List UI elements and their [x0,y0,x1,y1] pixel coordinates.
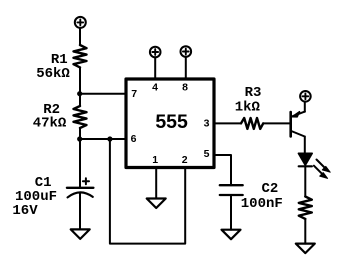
wire node C down, along bottom, up to pin 2 [110,139,185,244]
svg-text:3: 3 [204,117,210,129]
wire R2 to node B [79,128,81,139]
svg-text:1kΩ: 1kΩ [235,99,261,115]
node B (junction R2/C1/pin6) [77,136,82,141]
power supply P4 (above Q1) [300,91,311,102]
svg-text:1: 1 [152,154,158,166]
svg-text:4: 4 [152,82,158,94]
svg-text:C2: C2 [261,181,278,197]
wire C2 to ground [230,195,232,230]
wire pin 5 to C2 [214,155,231,185]
wire P3 to pin 8 [185,57,187,79]
svg-text:555: 555 [155,111,188,133]
node C (junction on pin6 wire to pin2 loop) [107,136,112,141]
wire LED to R4 [304,166,306,196]
svg-text:7: 7 [131,88,137,100]
wire C1 to ground [79,193,81,229]
svg-text:8: 8 [182,82,188,94]
wire pin 3 to R3 [214,122,241,124]
ground (below C1) [71,229,90,239]
transistor Q1 (PNP) [291,112,305,137]
svg-text:5: 5 [204,148,210,160]
wire node A to pin 7 [80,93,126,95]
LED D1 [298,153,330,178]
svg-text:47kΩ: 47kΩ [33,115,67,131]
wire R4 to ground [304,219,306,244]
node A (junction R1/R2/pin7) [77,91,82,96]
wire P2 to pin 4 [154,57,156,79]
wire Q1 collector to LED [304,137,306,154]
power supply P3 (above pin 8) [181,46,192,57]
svg-text:16V: 16V [12,203,38,219]
svg-text:6: 6 [131,133,137,145]
power supply P1 (top left +V) [75,17,86,28]
ground (below pin 1) [147,199,166,209]
resistor R1 [74,45,87,67]
ground (below C2) [222,230,241,240]
svg-text:2: 2 [182,154,188,166]
resistor R2 [74,106,87,128]
wire R3 to Q1 base [263,122,289,124]
wire R1 to node A [79,67,81,93]
capacitor C2 [220,185,243,195]
svg-text:56kΩ: 56kΩ [36,66,70,82]
svg-text:100nF: 100nF [241,196,283,212]
power supply P2 (above pin 4) [150,47,161,58]
wire pin 1 to ground [155,168,157,199]
resistor R4 (unlabelled, LED series) [299,197,312,219]
resistor R3 [241,118,263,129]
wire Q1 emitter to P4 [304,102,306,112]
ground (below R4) [296,244,315,254]
capacitor C1 (electrolytic) [67,178,94,197]
IC U1 555 outline [126,79,214,168]
wire node B to pin 6 [80,138,126,140]
wire P1 to R1 [79,28,81,45]
wire node B to C1 [79,139,81,187]
wire node A to R2 [79,94,81,106]
